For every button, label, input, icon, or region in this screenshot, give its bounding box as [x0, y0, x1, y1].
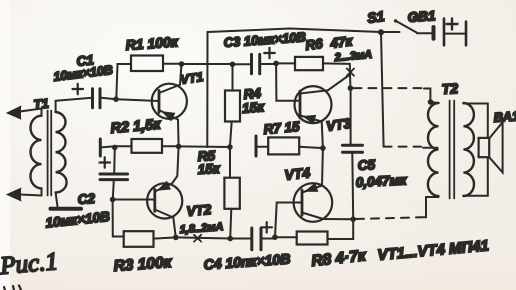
wire R2 right to emitter node	[162, 145, 179, 147]
svg-text:Рис.1: Рис.1	[0, 248, 59, 280]
node T2 top	[428, 99, 434, 105]
switch S1 lever	[397, 21, 418, 33]
svg-text:С2: С2	[77, 191, 96, 207]
wire T1 input top with arrow	[7, 106, 42, 119]
C3 plus sign	[264, 48, 275, 58]
resistor R8	[297, 232, 328, 245]
C4 plus sign	[262, 222, 273, 232]
resistor R3	[124, 231, 154, 247]
wire C5 bottom to node H	[351, 152, 354, 219]
node J C3 left	[230, 62, 236, 68]
corner to T2 bottom	[421, 197, 439, 217]
capacitor C1	[93, 89, 101, 108]
top power rail	[208, 29, 400, 33]
wire C5 top to node L	[350, 88, 352, 145]
svg-text:ВА1: ВА1	[493, 108, 516, 125]
wire R1 left down to node	[116, 64, 131, 99]
terminal bar left of R2	[99, 139, 102, 156]
node G C4/VT4 base/R8	[272, 234, 278, 240]
wire R8 left	[275, 236, 297, 238]
capacitor C5	[343, 145, 363, 152]
wire battery branch down	[381, 32, 384, 146]
wire C4 to VT4 base node	[261, 238, 275, 240]
capacitor C3	[252, 54, 260, 73]
wire R3 right to VT2 collector node	[154, 237, 176, 238]
svg-text:GB1: GB1	[407, 8, 436, 25]
switch S1 contact dot	[394, 19, 397, 22]
wire R4 top to C3 node	[232, 64, 234, 90]
capacitor C4	[252, 228, 261, 250]
svg-text:R6: R6	[305, 36, 324, 53]
terminal bar left of R7	[255, 136, 258, 156]
svg-text:0,047мк: 0,047мк	[355, 172, 407, 190]
node B R1/VT1 collector rail	[179, 61, 185, 67]
transistor VT2	[147, 146, 182, 237]
wire T1 secondary bottom to ground	[56, 193, 58, 207]
battery middle wire	[444, 33, 466, 35]
wire T1 secondary top to C1	[56, 98, 92, 112]
wire S1 to battery	[417, 32, 433, 34]
wire R6 right down to collector node	[323, 63, 350, 88]
wire R5 top to node	[229, 147, 231, 178]
resistor R4	[225, 91, 240, 122]
svg-text:Т2: Т2	[441, 80, 458, 97]
dashed wire VT4 collector to T2 bottom	[356, 217, 421, 219]
C1 plus sign	[73, 84, 84, 94]
wire R7 left to stub	[257, 146, 268, 148]
wire VT4 base to rail node	[275, 203, 302, 238]
wire rail to C4	[230, 238, 250, 240]
wire T2 secondary top to speaker	[463, 104, 487, 138]
resistor R2	[132, 139, 163, 153]
wire rail down to emitter line	[206, 32, 208, 147]
svg-text:С5: С5	[357, 157, 376, 173]
node A C1/R1/VT1 base	[113, 96, 119, 102]
svg-text:VT2: VT2	[186, 202, 212, 219]
transistor VT4	[294, 148, 354, 222]
svg-text:47к: 47к	[329, 33, 355, 51]
wire R7 right to emitter node	[299, 147, 323, 148]
C2 plus sign	[100, 157, 111, 167]
wire node to VT2 base	[113, 199, 155, 201]
wire C2 bottom to VT2 base node	[113, 180, 114, 200]
battery plus sign	[447, 19, 458, 30]
wire node to VT1 base	[116, 99, 159, 101]
svg-text:15к: 15к	[197, 161, 221, 177]
transistor VT3	[295, 75, 351, 149]
speaker BA1	[479, 122, 503, 172]
wire emitter line to R4/R5 node	[179, 145, 230, 148]
resistor R6	[295, 57, 323, 70]
wire C3 right to node	[260, 63, 276, 65]
resistor R5	[224, 178, 239, 209]
wire C3 left	[233, 63, 252, 65]
measuring point x mark 1,8..2мА	[194, 235, 201, 242]
node L R6/VT3 collector/C5 top	[348, 85, 354, 91]
battery GB1 short plate	[432, 27, 436, 39]
node M VT3/VT4 emitters R7	[320, 145, 326, 151]
battery GB1 long plate	[443, 19, 446, 46]
transformer T2	[428, 101, 474, 199]
dashed wire battery to T2 centre tap	[384, 146, 421, 148]
node N S1 junction	[378, 29, 384, 35]
svg-text:15к: 15к	[241, 99, 265, 116]
partial letter bottom edge	[4, 286, 21, 290]
wire R4 bottom to node	[230, 122, 232, 148]
node D C2/VT2 base/R3	[110, 197, 116, 203]
corner to T2 top	[424, 89, 430, 102]
T2 centre tap stub	[423, 147, 438, 149]
wire C1 to base node	[100, 98, 116, 100]
wire R6 left	[276, 62, 295, 64]
wire R1 right to collector node	[163, 63, 182, 65]
wire R8 right up to collector node	[328, 219, 354, 239]
node C emitters R2	[176, 144, 182, 150]
node H VT4 collector/C5/dash	[350, 216, 356, 222]
wire bottom rail to R5 node	[176, 237, 230, 238]
svg-text:R7 15: R7 15	[263, 119, 301, 137]
wire R5 bottom to rail	[230, 209, 231, 239]
capacitor C2	[100, 174, 128, 180]
wire T2 secondary bottom to speaker	[463, 158, 487, 196]
node E R3/VT2 collector	[173, 235, 179, 241]
wire node down to R3	[113, 200, 124, 237]
dashed wire VT3 collector to T2 top	[353, 87, 424, 89]
wire node down to VT3 base	[276, 63, 300, 100]
resistor R1	[131, 56, 163, 72]
wire T1 input bottom with arrow	[7, 188, 42, 201]
measuring point x mark 2...3мА	[347, 69, 354, 76]
transformer T1	[30, 111, 66, 196]
wire rail to C3	[182, 63, 233, 65]
node I R4/R5/emitter line	[227, 144, 233, 150]
node F R5 bottom	[227, 236, 233, 242]
svg-text:S1: S1	[366, 8, 385, 26]
resistor R7	[268, 137, 299, 154]
wire R2 left to stub	[102, 146, 132, 147]
transistor VT1	[152, 64, 187, 146]
node R2 left	[112, 145, 118, 151]
wire node down to C2	[113, 147, 116, 173]
ground bar	[51, 207, 82, 211]
svg-text:VT4: VT4	[284, 164, 311, 183]
battery GB1 second long plate	[465, 22, 468, 46]
node K C3/R6/VT3 base	[273, 61, 279, 67]
